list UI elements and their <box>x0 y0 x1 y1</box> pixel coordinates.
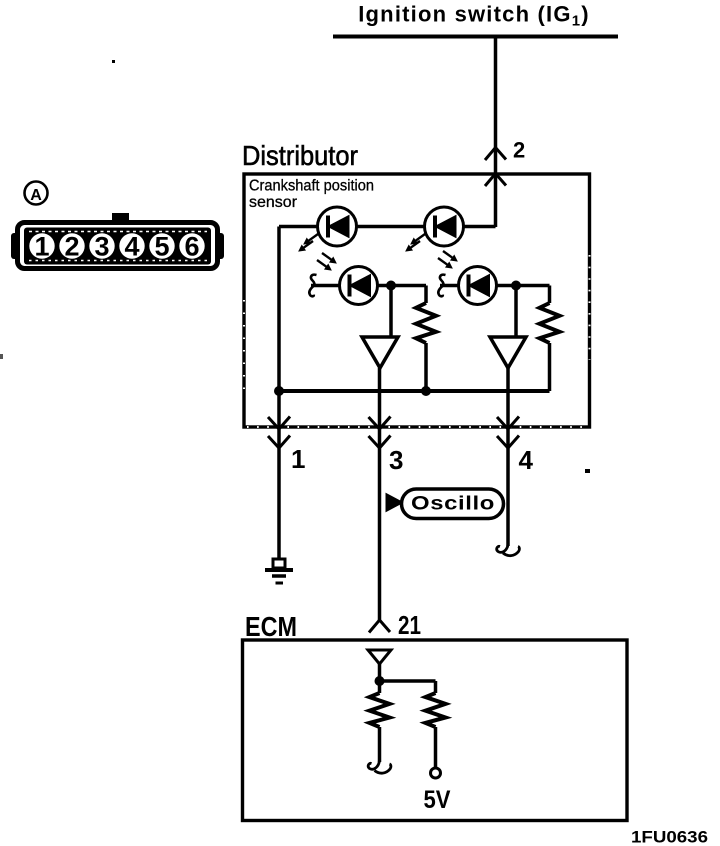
svg-text:Distributor: Distributor <box>242 140 358 171</box>
svg-text:1: 1 <box>291 444 305 474</box>
svg-text:Crankshaft position: Crankshaft position <box>249 178 374 195</box>
svg-text:1: 1 <box>34 232 49 262</box>
svg-text:6: 6 <box>184 232 199 262</box>
svg-text:A: A <box>30 187 42 204</box>
svg-text:5: 5 <box>154 232 169 262</box>
svg-text:Ignition switch (IG1): Ignition switch (IG1) <box>358 2 590 30</box>
svg-text:4: 4 <box>519 445 534 475</box>
svg-text:5V: 5V <box>424 786 451 814</box>
svg-text:3: 3 <box>94 232 109 262</box>
svg-text:1FU0636: 1FU0636 <box>631 828 708 846</box>
svg-text:ECM: ECM <box>245 611 297 642</box>
svg-text:Oscillo: Oscillo <box>411 494 495 515</box>
svg-text:21: 21 <box>398 610 421 640</box>
svg-text:4: 4 <box>124 232 139 262</box>
svg-text:3: 3 <box>389 445 403 475</box>
svg-text:2: 2 <box>513 138 525 163</box>
svg-text:sensor: sensor <box>249 194 298 211</box>
svg-text:2: 2 <box>64 232 79 262</box>
